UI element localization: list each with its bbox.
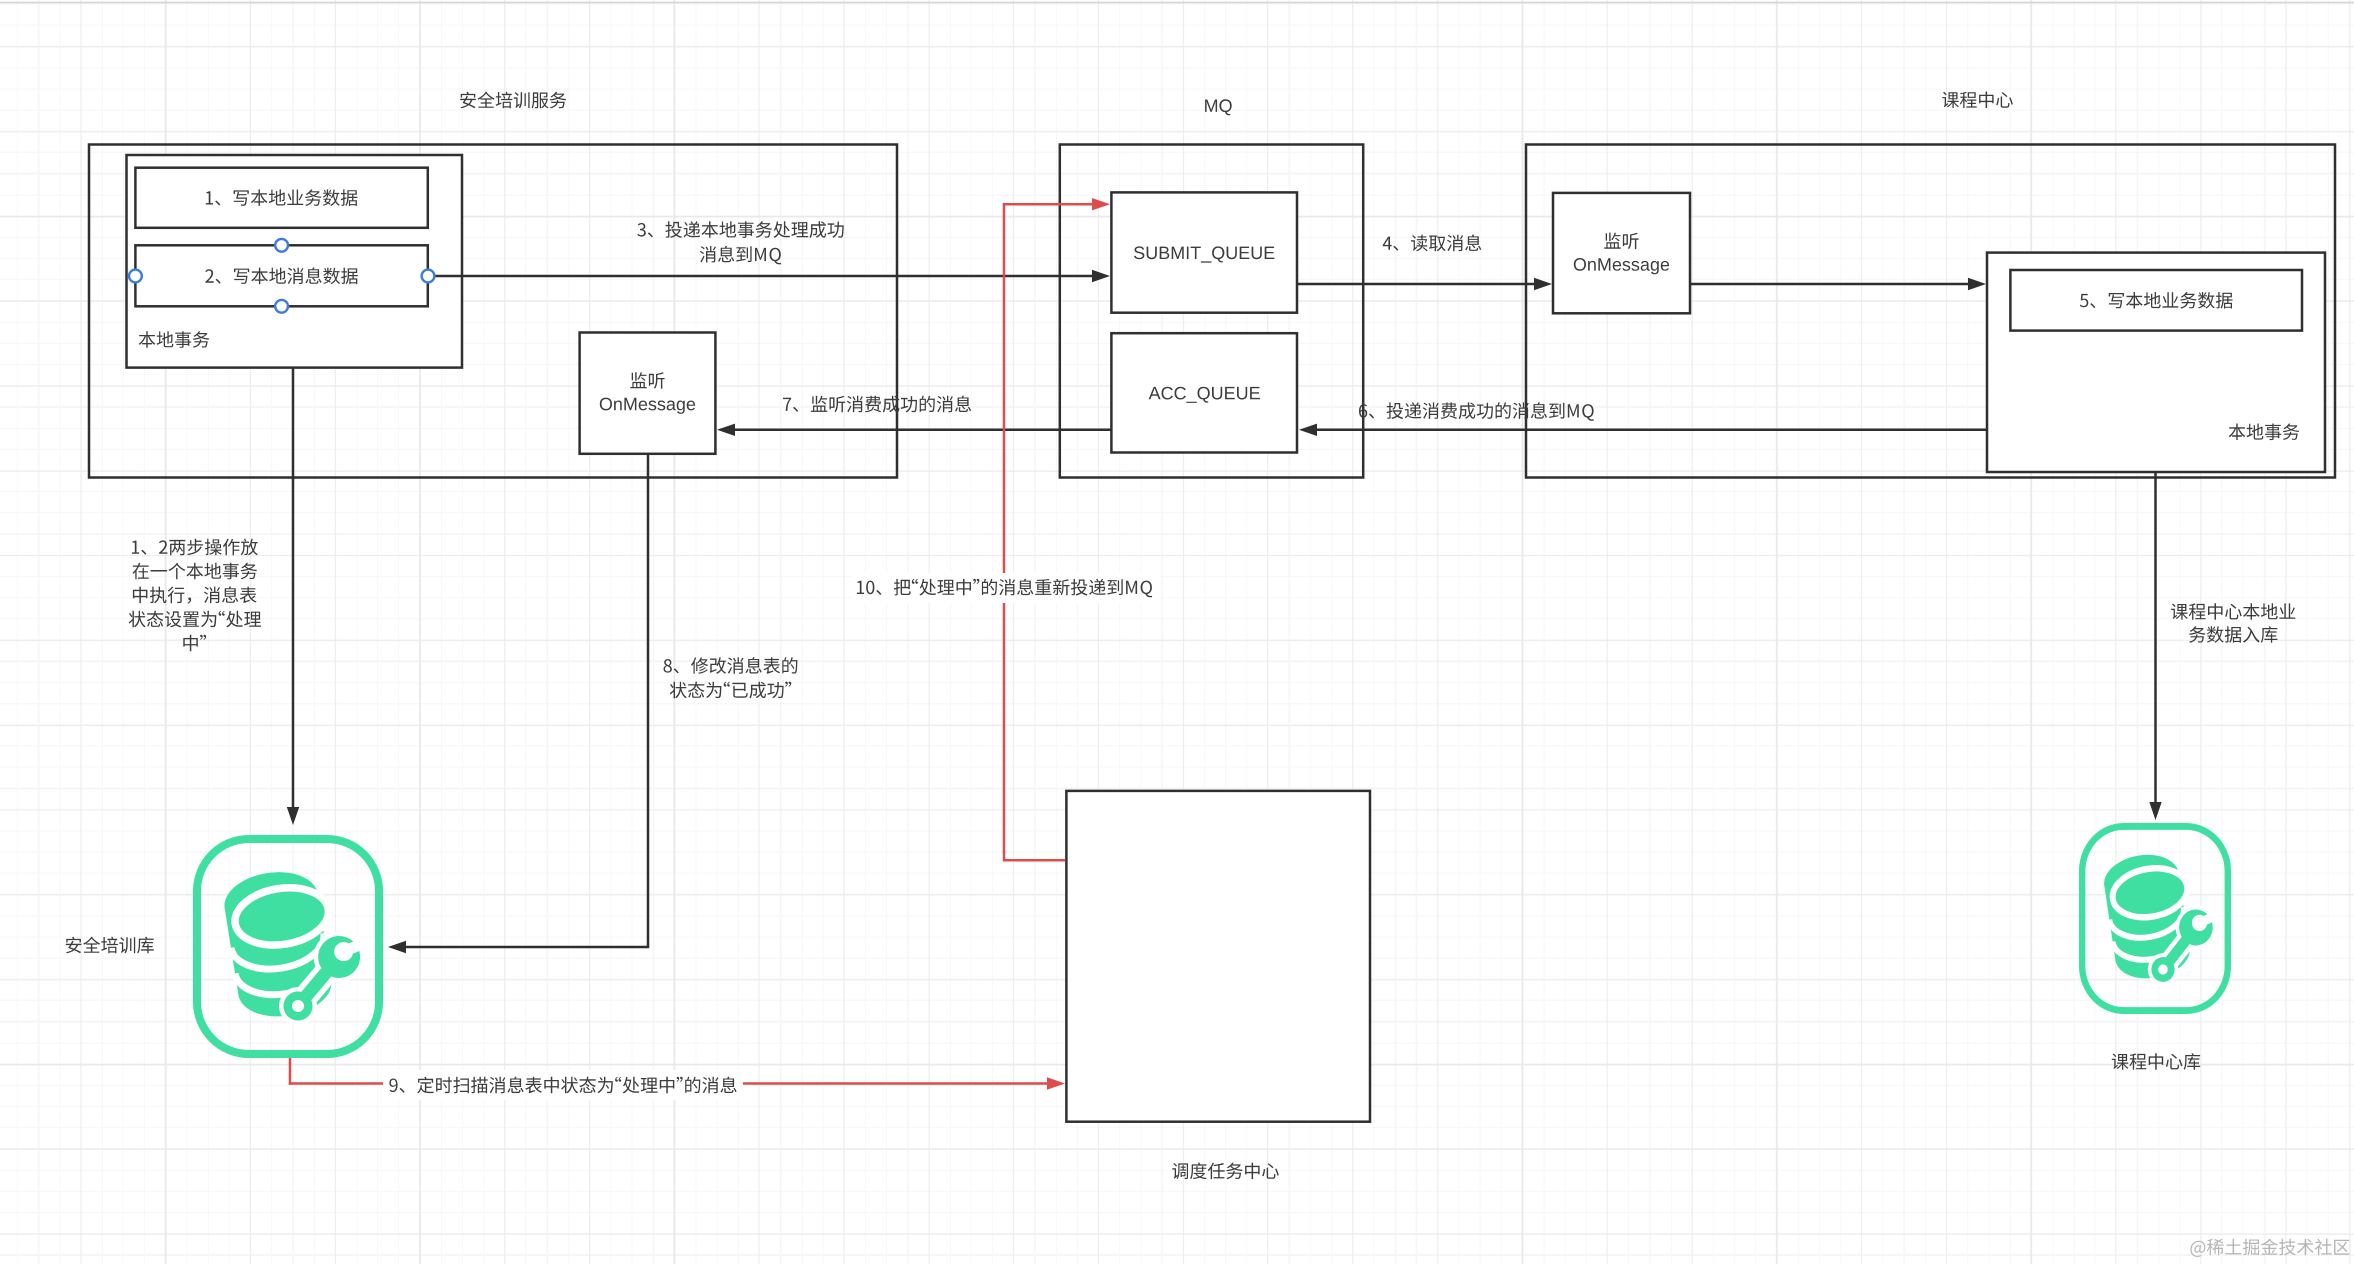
label: step2 text 2、写本地消息数据 <box>205 267 357 284</box>
label: note row1 (steps 1-2 note) <box>132 539 258 556</box>
label: 课程中心 (container title) <box>1942 92 2013 109</box>
box: MQ outer container <box>1060 145 1363 478</box>
box: ACC_QUEUE <box>1111 333 1297 452</box>
label: OnMessage (left listener line2) <box>600 398 695 414</box>
label: note row4 <box>129 611 261 628</box>
box: SUBMIT_QUEUE <box>1111 192 1297 312</box>
wire: line 6 right local transaction to ACC_QUEUE <box>1299 424 1987 436</box>
label: note row5 <box>183 635 206 652</box>
label: right note row1 课程中心本地业 <box>2171 603 2295 620</box>
label: line3 text row2 <box>700 246 781 265</box>
box: 监听 OnMessage listener (right) <box>1553 193 1690 313</box>
label: step5 text 5、写本地业务数据 <box>2080 292 2233 309</box>
node: connection port left of box2 <box>129 270 142 283</box>
label: line3 text row1 <box>637 221 843 238</box>
label: 调度任务中心 (scheduler name) <box>1172 1163 1279 1180</box>
icon: 课程中心库 database (right, green) <box>2082 826 2228 1010</box>
icon: 安全培训库 database (left, green) <box>197 839 379 1054</box>
label: line9 text <box>389 1077 736 1094</box>
label: line6 text <box>1359 402 1594 421</box>
canvas top boundary line <box>0 2 2354 4</box>
label: 课程中心库 (right DB name) <box>2112 1053 2200 1070</box>
wire: right OnMessage listener to right local-transaction box <box>1690 278 1986 290</box>
label: line8 text row2 <box>670 682 792 699</box>
box: step 1 写本地业务数据 <box>135 168 427 228</box>
node: connection port top of box2 <box>275 239 288 252</box>
box: 本地事务 (right) container <box>1987 253 2325 472</box>
box: 调度任务中心 scheduler <box>1066 791 1370 1122</box>
wire: line 4 SUBMIT_QUEUE to right OnMessage listener <box>1297 278 1552 290</box>
box: 课程中心 outer container <box>1526 145 2335 478</box>
wire (red): line 10 scheduler to SUBMIT_QUEUE redelivery <box>1003 198 1110 862</box>
label: step1 text 1、写本地业务数据 <box>206 189 358 206</box>
label: MQ (container title) <box>1205 99 1232 115</box>
box: 安全培训服务 outer container <box>89 145 897 478</box>
box: step 2 写本地消息数据 <box>135 245 427 306</box>
node: connection port bottom of box2 <box>275 300 288 313</box>
label: 本地事务 (right box corner) <box>2229 424 2300 441</box>
wire: right local transaction down to course-center DB <box>2149 472 2161 820</box>
wire (red): line 9 DB scan to scheduler <box>289 1058 1065 1090</box>
box: 监听 OnMessage listener (left) <box>580 333 716 454</box>
label: line4 text 4、读取消息 <box>1383 235 1482 252</box>
label: 本地事务 (left box corner) <box>139 331 210 348</box>
wire: left local transaction box down to security-training DB <box>287 368 299 825</box>
label: ACC_QUEUE <box>1149 387 1260 403</box>
wire: line 8 left OnMessage down/left to security-training DB <box>388 454 649 953</box>
box: 本地事务 (left) container <box>127 155 463 368</box>
label: 监听 (right listener line1) <box>1604 233 1638 250</box>
label: 监听 (left listener line1) <box>630 372 664 389</box>
label: SUBMIT_QUEUE <box>1134 246 1274 262</box>
label: 安全培训服务 (container title) <box>460 92 566 109</box>
label: line10 text <box>857 579 1152 598</box>
label bg for line 9 text <box>383 1070 743 1100</box>
label: 安全培训库 (left DB name) <box>66 937 154 954</box>
label: note row3 <box>133 586 257 603</box>
label: OnMessage (right listener line2) <box>1574 258 1669 274</box>
node: connection port right of box2 <box>422 270 435 283</box>
label: line7 text <box>783 396 971 413</box>
wire: line 3 from box2 right port to SUBMIT_QUEUE <box>428 270 1110 282</box>
label: note row2 <box>133 563 258 580</box>
label: right note row2 务数据入库 <box>2189 626 2277 643</box>
label: watermark 稀土掘金 <box>2190 1239 2349 1257</box>
label: line8 text row1 <box>664 657 798 674</box>
wire: line 7 ACC_QUEUE to left OnMessage listener <box>717 424 1111 436</box>
box: step 5 写本地业务数据 <box>2010 270 2302 331</box>
label bg for line 10 text <box>851 573 1159 603</box>
